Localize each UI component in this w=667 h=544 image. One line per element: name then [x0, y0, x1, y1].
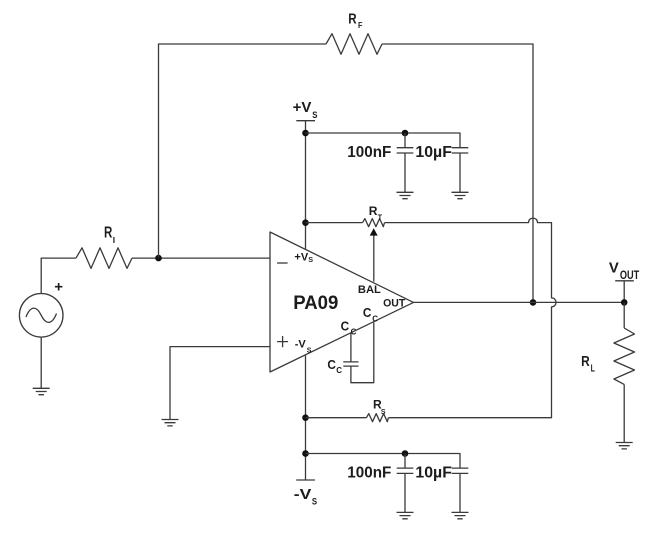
resistor R_I	[76, 224, 132, 268]
wire decoupling rail bottom	[306, 454, 461, 469]
svg-text:C: C	[351, 328, 357, 337]
wire output	[414, 301, 625, 303]
potentiometer R_T	[363, 204, 385, 227]
svg-text:L: L	[591, 364, 595, 375]
source V1 AC sine source	[19, 278, 63, 337]
capacitor C_C compensation network	[327, 306, 378, 383]
wire +V_S down to op-amp pin	[305, 121, 307, 249]
svg-text:T: T	[378, 214, 383, 221]
junction R_S node	[302, 414, 309, 421]
svg-text:-V: -V	[295, 339, 307, 351]
svg-text:10µF: 10µF	[415, 465, 452, 482]
svg-text:C: C	[341, 319, 350, 333]
svg-text:BAL: BAL	[358, 284, 381, 296]
svg-text:R: R	[104, 224, 112, 241]
junction input node	[155, 255, 162, 262]
svg-text:C: C	[336, 366, 342, 375]
junction output V_OUT node	[621, 299, 628, 306]
wire output node down to R_L	[623, 302, 625, 328]
junction 100nF bottom	[402, 450, 409, 457]
wire R_F to output node	[382, 44, 533, 302]
op-amp U1 PA09 triangle	[270, 232, 414, 372]
svg-text:S: S	[312, 497, 317, 507]
svg-text:C: C	[363, 306, 372, 320]
wire R_T left segment	[306, 222, 363, 224]
resistor R_L	[581, 328, 634, 384]
svg-text:R: R	[369, 204, 378, 218]
svg-text:+V: +V	[293, 99, 312, 116]
wire R_S left segment	[306, 417, 367, 419]
svg-text:S: S	[307, 348, 312, 355]
svg-text:V: V	[609, 259, 619, 276]
ground under 10uF top	[452, 192, 469, 198]
capacitor 100nF top	[347, 133, 413, 192]
resistor R_F	[326, 11, 382, 55]
wire feedback left vertical and top	[159, 44, 327, 258]
svg-text:+: +	[54, 278, 63, 295]
resistor R_S	[366, 398, 388, 422]
wire noninverting input to ground	[170, 347, 270, 420]
wire decoupling rail top	[306, 133, 461, 148]
ground under 10uF bottom	[452, 512, 469, 518]
svg-text:S: S	[312, 110, 317, 120]
ground at noninverting input	[162, 420, 179, 426]
svg-text:PA09: PA09	[293, 293, 338, 314]
capacitor 100nF bottom	[347, 454, 413, 513]
junction -V_S decoupling	[302, 450, 309, 457]
svg-text:10µF: 10µF	[415, 144, 452, 161]
supply terminal +V_S	[293, 99, 318, 121]
terminal V_OUT	[609, 259, 639, 282]
capacitor 10uF top	[415, 144, 468, 192]
svg-text:+V: +V	[294, 251, 308, 263]
svg-text:S: S	[308, 257, 313, 264]
svg-text:OUT: OUT	[620, 270, 639, 282]
wire R_I to inverting input	[132, 257, 270, 259]
junction +V_S decoupling	[302, 130, 309, 137]
svg-text:C: C	[327, 358, 336, 372]
capacitor 10uF bottom	[415, 465, 468, 513]
BAL wiper arrow	[370, 228, 378, 281]
svg-text:F: F	[358, 21, 363, 30]
wire V_OUT terminal to output node	[623, 281, 625, 303]
junction R_T node on +V_S line	[302, 219, 309, 226]
ground under source	[33, 388, 50, 394]
svg-text:I: I	[113, 235, 115, 245]
svg-text:100nF: 100nF	[347, 144, 391, 161]
ground under 100nF bottom	[397, 512, 414, 518]
ground under 100nF top	[397, 192, 414, 198]
ground under R_L	[616, 443, 633, 449]
wire R_L to ground	[623, 384, 625, 442]
svg-text:R: R	[348, 11, 357, 28]
wire R_T right with hop over feedback then down with hop over output to R_S	[385, 218, 557, 418]
svg-text:R: R	[581, 353, 590, 370]
junction feedback output node	[530, 299, 537, 306]
junction 100nF top	[402, 130, 409, 137]
svg-text:S: S	[381, 409, 386, 416]
supply terminal -V_S	[294, 480, 317, 507]
wire source bottom to ground	[40, 337, 42, 388]
svg-text:C: C	[372, 315, 378, 324]
svg-text:100nF: 100nF	[347, 465, 391, 482]
svg-text:OUT: OUT	[383, 297, 405, 309]
wire -V_S pin down	[305, 355, 307, 480]
svg-text:-V: -V	[294, 486, 312, 503]
wire source top to R_I	[41, 258, 76, 293]
